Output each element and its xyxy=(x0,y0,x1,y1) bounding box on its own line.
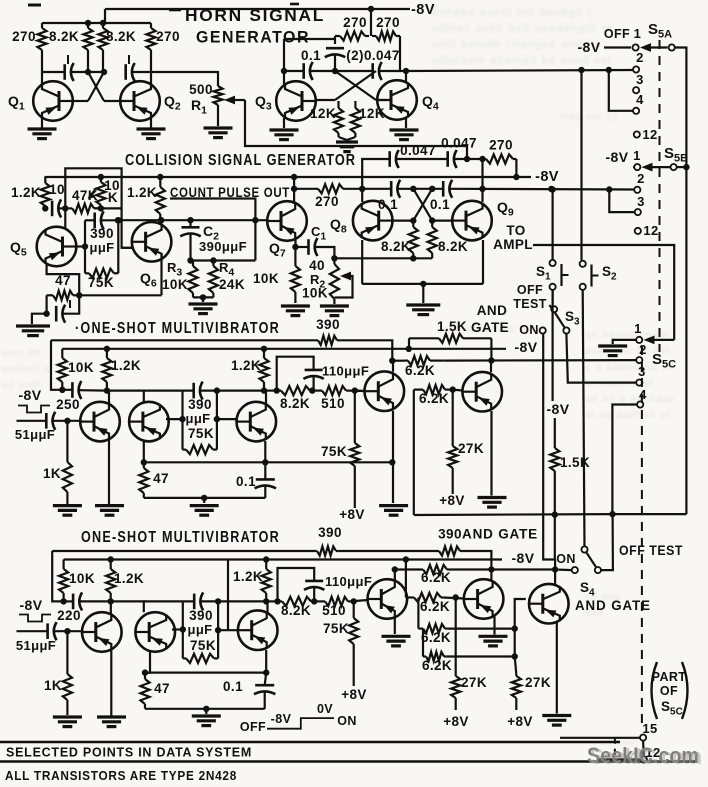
wire Q6 collector xyxy=(160,220,162,224)
dashed line lower xyxy=(641,346,643,728)
wire 01 down row4 xyxy=(265,673,267,686)
junction xyxy=(368,6,374,12)
contact S1 top xyxy=(550,260,556,266)
svg-text:1.2K: 1.2K xyxy=(111,358,141,373)
wire 270 drop to rail xyxy=(515,159,517,177)
wire S4 ON link xyxy=(558,568,571,571)
wire 12K join2 xyxy=(347,137,355,140)
wire gate bias bus xyxy=(414,513,613,516)
wire 390 box right xyxy=(117,220,119,273)
capacitor 1 coupling Q2 xyxy=(126,63,135,81)
junction xyxy=(488,357,494,363)
wire 62Kd right xyxy=(446,655,514,657)
wire row3 line A right xyxy=(338,340,392,360)
svg-text:6.2K: 6.2K xyxy=(421,570,451,585)
svg-text:250: 250 xyxy=(56,397,80,412)
wire T6 emitter xyxy=(556,621,558,714)
svg-text:1.2K: 1.2K xyxy=(231,358,261,373)
capacitor 110uuF row4 xyxy=(304,581,324,590)
wire cross row xyxy=(335,70,372,72)
transistor one-shot2 T1 xyxy=(82,612,122,652)
svg-text:1: 1 xyxy=(633,148,641,163)
resistor 8.2K row4 xyxy=(278,597,315,606)
svg-text:75K: 75K xyxy=(88,275,114,290)
wire box top row4 b xyxy=(201,600,266,602)
ground Q4 xyxy=(390,130,419,140)
svg-text:sotc amade changso amplio: sotc amade changso amplio xyxy=(432,39,600,51)
wire cap to Q2 collector xyxy=(133,71,151,73)
svg-text:R4: R4 xyxy=(219,260,234,279)
svg-text:+8V: +8V xyxy=(439,493,465,508)
svg-text:1.2K: 1.2K xyxy=(114,571,144,586)
junction xyxy=(141,459,147,465)
wire 0.1 row xyxy=(294,188,316,190)
wire line C row4 xyxy=(395,568,419,570)
contact S1 bottom xyxy=(550,284,556,290)
svg-text:510: 510 xyxy=(321,396,345,411)
wire 270 left drop xyxy=(334,36,336,44)
resistor 6.2K row4 a xyxy=(419,565,450,574)
ground T4 row3 xyxy=(379,506,408,516)
wire 62Kb left drop row4 xyxy=(405,560,407,598)
contact S4 pivot xyxy=(581,546,587,552)
svg-text:51μμF: 51μμF xyxy=(15,427,55,442)
svg-text:-8V: -8V xyxy=(535,169,559,185)
svg-text:1: 1 xyxy=(634,321,642,336)
svg-text:390: 390 xyxy=(90,226,114,241)
wire Q1 emitter xyxy=(41,118,43,128)
resistor 1.2K row3 b xyxy=(259,349,268,391)
wire Q7 emitter xyxy=(294,237,296,248)
junction xyxy=(187,257,193,263)
svg-text:10: 10 xyxy=(49,182,65,197)
junction xyxy=(479,186,485,192)
wire cross couple B xyxy=(88,72,104,101)
transistor Q2 xyxy=(120,81,160,121)
junction xyxy=(263,669,269,675)
svg-text:·ONE-SHOT MULTIVIBRATOR: ·ONE-SHOT MULTIVIBRATOR xyxy=(75,320,280,337)
wire T1 emitter row3 xyxy=(108,439,110,504)
ground Q3 xyxy=(270,130,299,140)
junction xyxy=(331,255,337,261)
wire row3 line A drop xyxy=(51,340,62,390)
wire node bus row4 xyxy=(266,600,277,602)
wire S5A common to right rail xyxy=(675,48,686,515)
wire node to T2 top xyxy=(107,391,144,402)
wire long line to S5A contact2 xyxy=(406,70,633,71)
wire Q4 collector xyxy=(405,71,407,83)
wire cross couple Q3 xyxy=(335,71,376,100)
svg-text:0.047: 0.047 xyxy=(441,136,477,151)
svg-text:27K: 27K xyxy=(525,675,551,690)
wire to ampl xyxy=(533,245,674,340)
wire Q4 base xyxy=(376,99,387,101)
svg-text:0.1: 0.1 xyxy=(236,474,256,489)
resistor 1.5K mid col xyxy=(550,418,559,560)
svg-text:6.2K: 6.2K xyxy=(405,363,435,378)
resistor 1.2K Q6 xyxy=(156,177,165,220)
resistor 27K row4 a xyxy=(451,598,460,711)
junction xyxy=(261,346,267,352)
capacitor 0.047 Q8 xyxy=(390,150,399,168)
wire row4 line A drop r xyxy=(462,551,491,570)
junction xyxy=(332,68,338,74)
transistor Q1 xyxy=(33,81,73,121)
svg-text:S5B: S5B xyxy=(664,145,688,165)
resistor 270 Q9 xyxy=(483,154,517,163)
svg-text:0.047: 0.047 xyxy=(400,143,436,158)
svg-text:-8V: -8V xyxy=(271,712,292,726)
wire C2 bot xyxy=(189,234,191,261)
wire cross Q9 xyxy=(413,189,432,221)
svg-text:S5C: S5C xyxy=(661,699,683,718)
junction xyxy=(76,292,82,298)
junction xyxy=(403,556,409,562)
svg-text:1.2K: 1.2K xyxy=(11,185,41,200)
capacitor 0.1 row3 xyxy=(255,479,276,488)
wire T5p collector xyxy=(490,570,492,580)
junction xyxy=(578,67,584,73)
junction xyxy=(261,387,267,393)
wire to ground Q5 xyxy=(32,314,47,324)
wire box top row4 xyxy=(144,600,194,602)
junction xyxy=(291,186,297,192)
junction xyxy=(274,598,280,604)
label 1 value tick xyxy=(128,55,130,64)
junction xyxy=(683,164,689,170)
junction xyxy=(410,186,416,192)
wire box row4 right xyxy=(217,601,219,658)
svg-text:6.2K: 6.2K xyxy=(422,658,452,673)
junction xyxy=(606,186,612,192)
svg-text:ON: ON xyxy=(519,323,539,337)
wire 110 bracket row4 b xyxy=(313,588,315,601)
svg-text:GENERATOR: GENERATOR xyxy=(196,29,310,47)
svg-text:Q4: Q4 xyxy=(422,93,439,113)
wire 27K2 drop xyxy=(515,657,517,675)
svg-text:10K: 10K xyxy=(162,277,188,292)
svg-text:+8V: +8V xyxy=(443,714,469,729)
svg-text:OFF TEST: OFF TEST xyxy=(619,543,683,558)
svg-text:270: 270 xyxy=(156,29,180,44)
resistor 270 Q1 collector xyxy=(37,23,46,72)
resistor 270 Q2 collector xyxy=(146,23,155,72)
wire rail tap Q3Q4 xyxy=(370,9,372,36)
ground Q7 xyxy=(281,306,310,316)
transistor one-shot1 T2 xyxy=(129,402,169,442)
svg-text:3: 3 xyxy=(636,72,644,87)
contact S2 bottom xyxy=(580,284,586,290)
svg-text:6.2K: 6.2K xyxy=(420,599,450,614)
wire box row3 left xyxy=(181,391,183,450)
contact S5B-1 xyxy=(634,164,640,170)
transistor Q5 xyxy=(37,227,77,267)
label 1 value tick xyxy=(67,55,69,64)
wire cap row3 xyxy=(62,389,72,391)
svg-text:47: 47 xyxy=(153,471,169,486)
svg-text:sdasbam abemad ba asad asl: sdasbam abemad ba asad asl xyxy=(432,55,611,67)
junction xyxy=(512,653,518,659)
capacitor 110uuF row3 xyxy=(303,370,323,379)
decorative paren left xyxy=(652,662,658,719)
wire T4 collector xyxy=(392,361,394,372)
svg-text:27K: 27K xyxy=(458,441,484,456)
svg-text:AND GATE: AND GATE xyxy=(575,597,651,613)
resistor 47 Q5 xyxy=(47,291,80,300)
wire cross couple A xyxy=(88,72,104,101)
svg-text:ALL TRANSISTORS ARE TYPE 2N428: ALL TRANSISTORS ARE TYPE 2N428 xyxy=(5,768,237,783)
junction xyxy=(420,281,426,287)
resistor 75K box row4 xyxy=(183,654,218,663)
resistor 8.2K Q2 base xyxy=(98,23,107,72)
wire S3 to S5C3 xyxy=(566,334,635,383)
resistor 10K row4 xyxy=(59,560,68,602)
svg-text:6.2K: 6.2K xyxy=(421,630,451,645)
contact S5C-3 xyxy=(636,380,642,386)
wire emitter bus row3 xyxy=(144,461,392,463)
svg-text:1K: 1K xyxy=(44,678,62,693)
contact S5A common xyxy=(669,44,675,50)
transistor one-shot2 T2 xyxy=(135,612,175,652)
capacitor 0.1 Q3 xyxy=(304,62,313,80)
svg-text:+8V: +8V xyxy=(507,714,533,729)
wire S3 ON down xyxy=(543,334,555,560)
wire T3p collector xyxy=(266,601,268,614)
wire S5B-3 link xyxy=(609,190,634,213)
wire T3 collector row3 xyxy=(265,391,267,405)
svg-text:OF: OF xyxy=(660,684,678,698)
pulse glyph row4 xyxy=(19,615,51,622)
svg-text:μμF: μμF xyxy=(187,622,212,637)
contact S5A-3 xyxy=(633,87,639,93)
wire gnd stub row3 xyxy=(203,498,205,503)
transistor one-shot1 T1 xyxy=(80,402,120,442)
wire 0.047 bracket xyxy=(362,159,389,189)
transistor one-shot2 T3 xyxy=(238,610,278,650)
svg-text:AND: AND xyxy=(477,303,507,318)
svg-text:2: 2 xyxy=(637,171,645,186)
svg-text:al as asdf ss al: al as asdf ss al xyxy=(585,409,670,421)
svg-text:R3: R3 xyxy=(167,260,182,279)
capacitor 10 xyxy=(52,199,61,217)
capacitor 0.1 row4 xyxy=(254,685,275,694)
switch S1 bar xyxy=(560,264,562,286)
wire -8V top rail xyxy=(105,8,410,10)
wire C2 top xyxy=(189,220,191,227)
ground R2 xyxy=(320,306,349,316)
ground 1K row3 xyxy=(53,506,82,516)
wire S2 down to S4 xyxy=(583,290,585,546)
wire S5B common xyxy=(677,166,686,168)
svg-text:110μμF: 110μμF xyxy=(325,574,372,589)
junction xyxy=(60,598,66,604)
wire Q2 collector xyxy=(150,72,152,84)
resistor 8.2K Q8 xyxy=(409,221,418,259)
svg-text:(2)0.047: (2)0.047 xyxy=(346,48,399,63)
wire Q2 emitter xyxy=(150,118,152,128)
junction xyxy=(85,69,91,75)
contact S5B-3 xyxy=(635,209,641,215)
transistor one-shot1 T3 xyxy=(236,402,276,442)
svg-text:-8V: -8V xyxy=(411,2,435,18)
svg-text:TEST: TEST xyxy=(513,297,547,311)
svg-text:110μμF: 110μμF xyxy=(322,364,369,379)
arrow S5C xyxy=(644,336,655,345)
svg-text:-8V: -8V xyxy=(606,149,629,165)
svg-text:12K: 12K xyxy=(310,106,336,121)
svg-text:27K: 27K xyxy=(461,675,487,690)
junction xyxy=(464,156,470,162)
arrow S5B xyxy=(642,163,653,172)
decorative paren right xyxy=(682,662,688,719)
wire Q5 collector xyxy=(64,208,66,228)
junction xyxy=(392,566,398,572)
resistor 75K box row3 xyxy=(183,445,217,454)
switch S2 bar xyxy=(590,265,592,287)
wire T3p base drop xyxy=(227,560,229,631)
junction xyxy=(108,556,114,562)
contact S5A-1 xyxy=(633,44,639,50)
capacitor cap row3 input stage xyxy=(72,381,81,399)
wire 01 down row3 b xyxy=(264,486,266,498)
junction xyxy=(215,627,221,633)
ground 12K pair xyxy=(336,142,358,152)
contact S4 left xyxy=(572,567,578,573)
capacitor 390uuF row3 xyxy=(194,382,203,400)
junction xyxy=(82,243,88,249)
wire Q4 emitter xyxy=(405,117,407,128)
junction xyxy=(64,418,70,424)
wire cap down xyxy=(334,55,336,71)
wire T1p collector xyxy=(110,601,112,615)
junction xyxy=(98,205,104,211)
wire C1 link xyxy=(295,246,307,248)
wire R1 wiper out xyxy=(245,100,467,159)
svg-text:1.5K: 1.5K xyxy=(560,455,590,470)
resistor 75K box xyxy=(85,269,118,278)
contact S5A-2 xyxy=(633,66,639,72)
wire 0047 mid xyxy=(397,158,447,160)
wire 62Kc left xyxy=(417,598,419,629)
wire gnd bus row3 xyxy=(144,497,265,499)
contact S4 right xyxy=(595,567,601,573)
junction xyxy=(281,68,287,74)
ground 1K row4 xyxy=(53,717,82,727)
junction xyxy=(64,628,70,634)
wire Q1 collector xyxy=(41,72,43,84)
wire node to T2p top xyxy=(111,601,144,612)
wire Q8 emitter xyxy=(361,240,363,284)
wire 390 box top xyxy=(85,219,95,221)
contact S5C-1 xyxy=(636,337,642,343)
svg-text:8.2K: 8.2K xyxy=(49,29,79,44)
junction xyxy=(214,387,220,393)
resistor R4 24K xyxy=(209,261,218,298)
capacitor 0.1 Q9 xyxy=(443,180,452,198)
resistor 75K vert row4 xyxy=(349,601,358,686)
contact S5B common xyxy=(671,164,677,170)
wire gnd drop Q8Q9 xyxy=(422,284,424,303)
svg-text:75K: 75K xyxy=(188,426,214,441)
resistor 10K xyxy=(96,177,105,208)
resistor 6.2K row3 b xyxy=(414,385,453,394)
wire 15K legs row3 b xyxy=(490,338,492,360)
svg-text:-8V: -8V xyxy=(512,550,535,566)
svg-text:TO: TO xyxy=(506,223,525,238)
wire 62Kd left xyxy=(422,629,424,657)
wire cross couple Q4 xyxy=(335,71,376,100)
ground Q2 xyxy=(137,129,166,139)
ground Q5 cluster xyxy=(16,326,50,336)
wire Q8 collector xyxy=(361,189,363,202)
svg-text:4: 4 xyxy=(639,387,647,402)
svg-text:asdasd a: asdasd a xyxy=(2,364,51,375)
svg-text:PART: PART xyxy=(652,670,687,684)
junction xyxy=(42,205,48,211)
transistor Q8 xyxy=(353,201,393,241)
crop artifact top 3 xyxy=(290,3,299,6)
junction xyxy=(351,598,357,604)
svg-text:8.2K: 8.2K xyxy=(381,239,411,254)
svg-text:S2: S2 xyxy=(602,264,617,283)
junction xyxy=(410,255,416,261)
resistor 47 row4 xyxy=(140,673,149,709)
contact S5C-4 xyxy=(637,401,643,407)
wire 0047 right xyxy=(455,158,483,160)
ground T1 row4 xyxy=(97,717,126,727)
wire to R1 top xyxy=(151,72,218,84)
wire S4 right up xyxy=(601,514,613,570)
wire input row4 xyxy=(17,630,48,632)
svg-text:ON: ON xyxy=(337,714,357,728)
svg-text:SeekIC.com: SeekIC.com xyxy=(590,744,702,769)
wire T1p emitter xyxy=(110,649,112,716)
junction xyxy=(104,387,110,393)
svg-text:15: 15 xyxy=(642,721,657,736)
svg-text:Q1: Q1 xyxy=(8,93,25,113)
wire 390 box left xyxy=(84,220,86,273)
svg-text:Q2: Q2 xyxy=(164,93,181,113)
transistor Q4 xyxy=(377,80,417,120)
resistor 10K Q7 xyxy=(291,247,300,303)
wire emitter bus row4 xyxy=(145,671,266,673)
svg-text:1K: 1K xyxy=(43,466,61,481)
svg-text:270: 270 xyxy=(315,194,339,209)
capacitor 0.1 Q8 xyxy=(391,180,400,198)
resistor 75K vert row3 xyxy=(350,391,359,508)
svg-text:sdfasc ashc bsd-aasdangth al: sdfasc ashc bsd-aasdangth al xyxy=(432,23,612,35)
svg-text:75K: 75K xyxy=(190,638,216,653)
svg-text:ONE-SHOT MULTIVIBRATOR: ONE-SHOT MULTIVIBRATOR xyxy=(81,529,280,546)
junction xyxy=(85,20,91,26)
wire Q9 base xyxy=(432,220,452,222)
resistor 12K Q4 base xyxy=(351,101,360,137)
svg-text:270: 270 xyxy=(343,15,367,30)
resistor 8.2K Q9 xyxy=(428,221,437,259)
capacitor 0.047 Q9 xyxy=(448,150,457,168)
junction xyxy=(274,387,280,393)
svg-text:sam bd: sam bd xyxy=(2,348,41,359)
wire cap row4 xyxy=(64,600,73,602)
svg-text:Q8: Q8 xyxy=(330,216,347,236)
svg-text:4: 4 xyxy=(636,92,644,107)
svg-text:SELECTED POINTS IN DATA SYSTEM: SELECTED POINTS IN DATA SYSTEM xyxy=(6,745,252,760)
capacitor 51uuF row4 xyxy=(48,622,57,640)
resistor 1.2K Q5 xyxy=(41,177,50,208)
resistor 270 Q3 xyxy=(335,31,369,40)
wire S5B wiper xyxy=(633,166,634,168)
junction xyxy=(548,186,554,192)
